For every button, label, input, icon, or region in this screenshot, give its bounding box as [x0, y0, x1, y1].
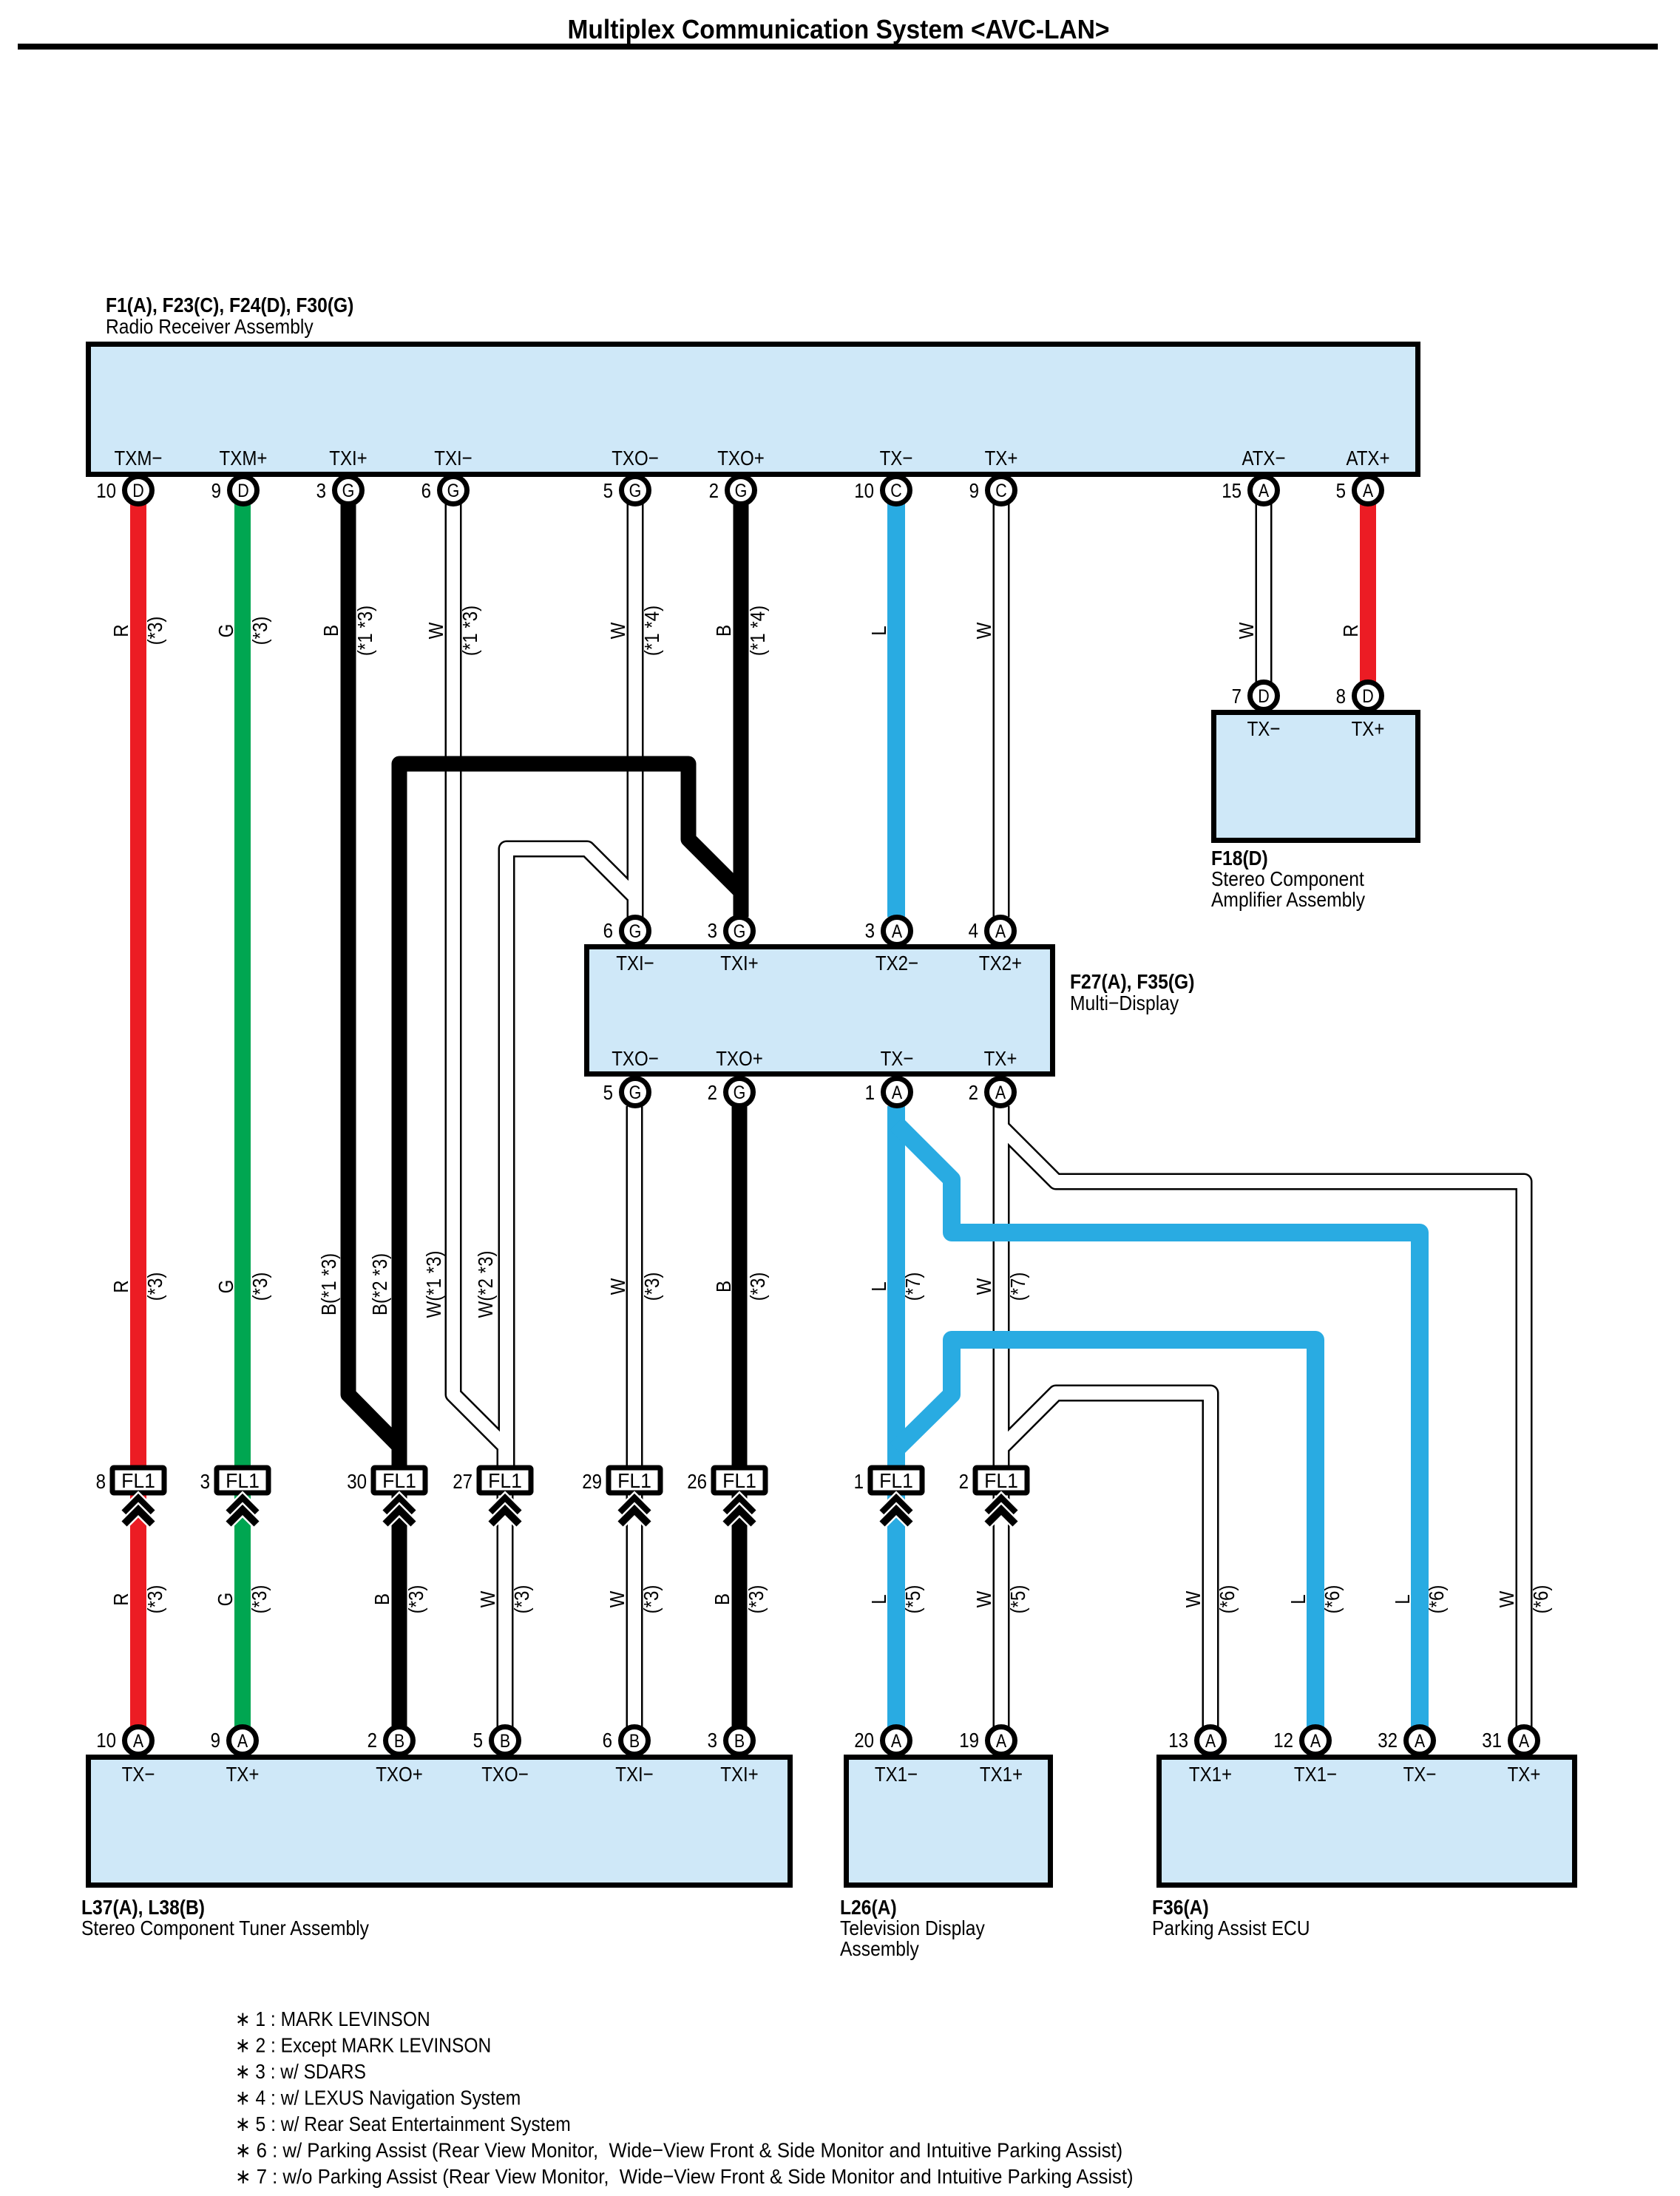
svg-text:(*1 *3): (*1 *3) [353, 606, 376, 656]
svg-text:19: 19 [959, 1729, 979, 1752]
svg-text:A: A [891, 1731, 902, 1752]
svg-text:6: 6 [421, 479, 431, 502]
svg-text:30: 30 [347, 1470, 367, 1493]
svg-text:ATX−: ATX− [1242, 447, 1285, 470]
svg-text:TX2+: TX2+ [979, 952, 1022, 975]
svg-text:3: 3 [708, 1729, 717, 1752]
svg-text:9: 9 [211, 479, 221, 502]
svg-text:G: G [735, 481, 748, 501]
svg-text:G: G [214, 624, 237, 638]
svg-text:B: B [370, 1593, 393, 1605]
svg-text:∗ 5 : w/ Rear Seat Entertainme: ∗ 5 : w/ Rear Seat Entertainment System [235, 2112, 571, 2135]
svg-text:R: R [109, 624, 132, 637]
svg-text:ATX+: ATX+ [1346, 447, 1389, 470]
svg-text:D: D [1362, 686, 1374, 707]
svg-text:FL1: FL1 [984, 1469, 1018, 1492]
svg-text:3: 3 [865, 919, 875, 942]
svg-text:(*3): (*3) [510, 1585, 533, 1614]
svg-text:27: 27 [453, 1470, 472, 1493]
svg-text:5: 5 [603, 479, 613, 502]
svg-text:W: W [606, 1590, 629, 1607]
svg-text:F36(A): F36(A) [1152, 1896, 1209, 1919]
svg-text:TXO+: TXO+ [716, 1047, 763, 1070]
svg-text:F27(A), F35(G): F27(A), F35(G) [1070, 970, 1194, 993]
svg-text:TX−: TX− [1403, 1763, 1437, 1786]
svg-text:A: A [1205, 1731, 1216, 1752]
svg-text:A: A [892, 921, 903, 942]
svg-text:(*3): (*3) [248, 1585, 271, 1614]
svg-text:2: 2 [367, 1729, 377, 1752]
svg-text:(*3): (*3) [248, 1272, 271, 1301]
svg-text:(*5): (*5) [901, 1585, 924, 1614]
svg-text:B(*1 *3): B(*1 *3) [317, 1253, 340, 1315]
svg-text:10: 10 [96, 479, 116, 502]
svg-text:R: R [1339, 624, 1362, 637]
svg-text:TXI−: TXI− [615, 1763, 654, 1786]
svg-text:L: L [867, 626, 890, 635]
svg-text:(*3): (*3) [746, 1272, 769, 1301]
svg-text:B: B [629, 1731, 640, 1752]
svg-text:TX−: TX− [881, 1047, 914, 1070]
svg-text:F1(A), F23(C), F24(D), F30(G): F1(A), F23(C), F24(D), F30(G) [106, 294, 353, 316]
svg-text:(*3): (*3) [143, 617, 166, 645]
svg-text:TXM−: TXM− [115, 447, 163, 470]
svg-text:B: B [500, 1731, 510, 1752]
svg-text:(*1 *4): (*1 *4) [640, 606, 663, 656]
svg-text:B: B [712, 1281, 735, 1292]
svg-text:A: A [996, 1731, 1007, 1752]
svg-text:A: A [1363, 481, 1374, 501]
svg-text:A: A [995, 921, 1006, 942]
svg-text:W: W [972, 1590, 995, 1607]
svg-text:G: G [734, 921, 746, 942]
svg-text:TXI−: TXI− [616, 952, 654, 975]
svg-text:(*3): (*3) [640, 1585, 663, 1614]
svg-text:6: 6 [603, 1729, 612, 1752]
svg-text:15: 15 [1222, 479, 1242, 502]
svg-text:(*6): (*6) [1321, 1585, 1344, 1614]
svg-text:1: 1 [854, 1470, 864, 1493]
svg-text:TX1−: TX1− [875, 1763, 918, 1786]
svg-text:1: 1 [865, 1081, 875, 1104]
svg-text:TXI+: TXI+ [329, 447, 367, 470]
svg-text:TX+: TX+ [226, 1763, 260, 1786]
svg-text:2: 2 [969, 1081, 978, 1104]
svg-text:8: 8 [1336, 685, 1346, 708]
svg-text:7: 7 [1232, 685, 1242, 708]
svg-text:31: 31 [1482, 1729, 1502, 1752]
svg-text:W: W [1182, 1590, 1205, 1607]
svg-text:L: L [1287, 1594, 1310, 1604]
svg-text:TXI−: TXI− [434, 447, 472, 470]
svg-text:Multi−Display: Multi−Display [1070, 992, 1179, 1014]
svg-text:L: L [1391, 1594, 1414, 1604]
svg-text:4: 4 [969, 919, 978, 942]
svg-text:9: 9 [211, 1729, 220, 1752]
svg-text:3: 3 [316, 479, 326, 502]
svg-text:G: G [214, 1593, 237, 1607]
svg-text:A: A [133, 1731, 144, 1752]
svg-text:TX+: TX+ [985, 447, 1018, 470]
svg-text:(*3): (*3) [143, 1272, 166, 1301]
svg-text:A: A [1415, 1731, 1426, 1752]
svg-text:L26(A): L26(A) [840, 1896, 897, 1919]
svg-text:R: R [109, 1280, 132, 1292]
svg-text:∗ 2 : Except MARK LEVINSON: ∗ 2 : Except MARK LEVINSON [235, 2034, 491, 2057]
svg-text:W(*2 *3): W(*2 *3) [474, 1251, 497, 1318]
svg-text:FL1: FL1 [879, 1469, 913, 1492]
svg-text:TXO−: TXO− [612, 1047, 659, 1070]
svg-text:C: C [995, 481, 1007, 501]
svg-text:A: A [892, 1082, 903, 1103]
svg-text:L: L [867, 1594, 890, 1604]
svg-text:(*3): (*3) [745, 1585, 768, 1614]
svg-text:26: 26 [687, 1470, 707, 1493]
svg-text:5: 5 [1336, 479, 1346, 502]
svg-text:TX−: TX− [122, 1763, 155, 1786]
svg-text:TXO−: TXO− [612, 447, 659, 470]
svg-text:W(*1 *3): W(*1 *3) [422, 1251, 445, 1318]
svg-text:A: A [995, 1082, 1006, 1103]
svg-text:L: L [867, 1281, 890, 1291]
svg-text:FL1: FL1 [382, 1469, 416, 1492]
svg-text:TX−: TX− [880, 447, 913, 470]
svg-text:(*3): (*3) [404, 1585, 427, 1614]
svg-text:FL1: FL1 [617, 1469, 651, 1492]
svg-text:W: W [606, 1278, 629, 1295]
svg-text:(*6): (*6) [1425, 1585, 1448, 1614]
svg-text:TXO+: TXO+ [717, 447, 765, 470]
svg-text:B: B [319, 625, 342, 637]
svg-text:9: 9 [969, 479, 979, 502]
svg-text:(*3): (*3) [248, 617, 271, 645]
svg-text:B: B [734, 1731, 745, 1752]
svg-text:B: B [394, 1731, 404, 1752]
svg-text:(*6): (*6) [1216, 1585, 1239, 1614]
svg-text:TX1−: TX1− [1294, 1763, 1337, 1786]
svg-text:TX1+: TX1+ [980, 1763, 1023, 1786]
svg-text:B: B [711, 1593, 734, 1605]
svg-text:D: D [237, 481, 249, 501]
svg-text:W: W [1235, 622, 1258, 639]
svg-text:Amplifier Assembly: Amplifier Assembly [1211, 888, 1365, 911]
svg-text:∗ 1 : MARK LEVINSON: ∗ 1 : MARK LEVINSON [235, 2007, 430, 2030]
svg-text:G: G [734, 1082, 746, 1103]
svg-text:G: G [342, 481, 355, 501]
svg-text:3: 3 [708, 919, 717, 942]
svg-text:L37(A), L38(B): L37(A), L38(B) [81, 1896, 205, 1919]
svg-text:Television Display: Television Display [840, 1917, 985, 1939]
svg-text:FL1: FL1 [488, 1469, 522, 1492]
svg-text:W: W [972, 1278, 995, 1295]
svg-text:13: 13 [1168, 1729, 1188, 1752]
svg-text:29: 29 [582, 1470, 602, 1493]
svg-text:TX−: TX− [1247, 717, 1281, 740]
svg-text:G: G [629, 921, 642, 942]
svg-text:A: A [1310, 1731, 1321, 1752]
svg-text:TX+: TX+ [1352, 717, 1385, 740]
svg-text:∗ 4 : w/ LEXUS Navigation Syst: ∗ 4 : w/ LEXUS Navigation System [235, 2087, 521, 2109]
svg-text:Assembly: Assembly [840, 1937, 919, 1960]
svg-text:Parking Assist ECU: Parking Assist ECU [1152, 1917, 1310, 1939]
svg-text:F18(D): F18(D) [1211, 847, 1268, 870]
svg-text:∗ 7 : w/o Parking Assist (Rear: ∗ 7 : w/o Parking Assist (Rear View Moni… [235, 2165, 1134, 2188]
svg-text:∗ 3 : w/ SDARS: ∗ 3 : w/ SDARS [235, 2060, 366, 2083]
svg-text:G: G [629, 1082, 642, 1103]
svg-text:A: A [1259, 481, 1270, 501]
svg-text:8: 8 [96, 1470, 106, 1493]
svg-text:W: W [1495, 1590, 1518, 1607]
svg-text:TXO−: TXO− [481, 1763, 529, 1786]
svg-text:G: G [447, 481, 460, 501]
svg-text:20: 20 [854, 1729, 874, 1752]
svg-text:C: C [890, 481, 902, 501]
svg-text:12: 12 [1273, 1729, 1293, 1752]
svg-text:B(*2 *3): B(*2 *3) [368, 1253, 391, 1315]
svg-text:W: W [606, 622, 629, 639]
svg-text:R: R [109, 1593, 132, 1605]
svg-text:(*5): (*5) [1006, 1585, 1029, 1614]
svg-text:TX+: TX+ [1508, 1763, 1541, 1786]
svg-text:3: 3 [200, 1470, 210, 1493]
svg-text:FL1: FL1 [226, 1469, 260, 1492]
svg-text:(*1 *4): (*1 *4) [746, 606, 769, 656]
svg-text:G: G [629, 481, 642, 501]
svg-text:D: D [132, 481, 144, 501]
svg-text:TXM+: TXM+ [220, 447, 268, 470]
svg-text:10: 10 [96, 1729, 116, 1752]
svg-text:W: W [476, 1590, 499, 1607]
svg-text:TXI+: TXI+ [720, 952, 759, 975]
svg-text:TXI+: TXI+ [720, 1763, 759, 1786]
svg-text:32: 32 [1378, 1729, 1398, 1752]
svg-text:TX+: TX+ [984, 1047, 1017, 1070]
svg-text:5: 5 [473, 1729, 483, 1752]
svg-text:W: W [972, 622, 995, 639]
svg-text:W: W [424, 622, 447, 639]
svg-text:A: A [1519, 1731, 1530, 1752]
svg-text:Stereo Component: Stereo Component [1211, 867, 1364, 890]
svg-text:(*3): (*3) [640, 1272, 663, 1301]
svg-text:Multiplex Communication System: Multiplex Communication System <AVC-LAN> [568, 14, 1110, 44]
svg-text:Radio Receiver Assembly: Radio Receiver Assembly [106, 315, 314, 338]
svg-text:∗ 6 : w/ Parking Assist (Rear: ∗ 6 : w/ Parking Assist (Rear View Monit… [235, 2139, 1122, 2162]
svg-text:D: D [1258, 686, 1270, 707]
svg-text:2: 2 [959, 1470, 969, 1493]
svg-text:2: 2 [709, 479, 719, 502]
svg-text:(*6): (*6) [1529, 1585, 1552, 1614]
svg-text:2: 2 [708, 1081, 717, 1104]
svg-text:FL1: FL1 [722, 1469, 756, 1492]
svg-text:TX1+: TX1+ [1189, 1763, 1232, 1786]
svg-text:(*7): (*7) [901, 1272, 924, 1301]
svg-text:(*3): (*3) [143, 1585, 166, 1614]
svg-text:G: G [214, 1280, 237, 1294]
svg-text:(*7): (*7) [1006, 1272, 1029, 1301]
svg-text:A: A [237, 1731, 248, 1752]
svg-text:B: B [712, 625, 735, 637]
svg-text:10: 10 [854, 479, 874, 502]
svg-text:TX2−: TX2− [875, 952, 918, 975]
svg-text:6: 6 [603, 919, 613, 942]
svg-text:5: 5 [603, 1081, 613, 1104]
svg-text:(*1 *3): (*1 *3) [458, 606, 481, 656]
svg-text:Stereo Component Tuner Assembl: Stereo Component Tuner Assembly [81, 1917, 369, 1939]
svg-text:TXO+: TXO+ [376, 1763, 423, 1786]
svg-text:FL1: FL1 [121, 1469, 155, 1492]
